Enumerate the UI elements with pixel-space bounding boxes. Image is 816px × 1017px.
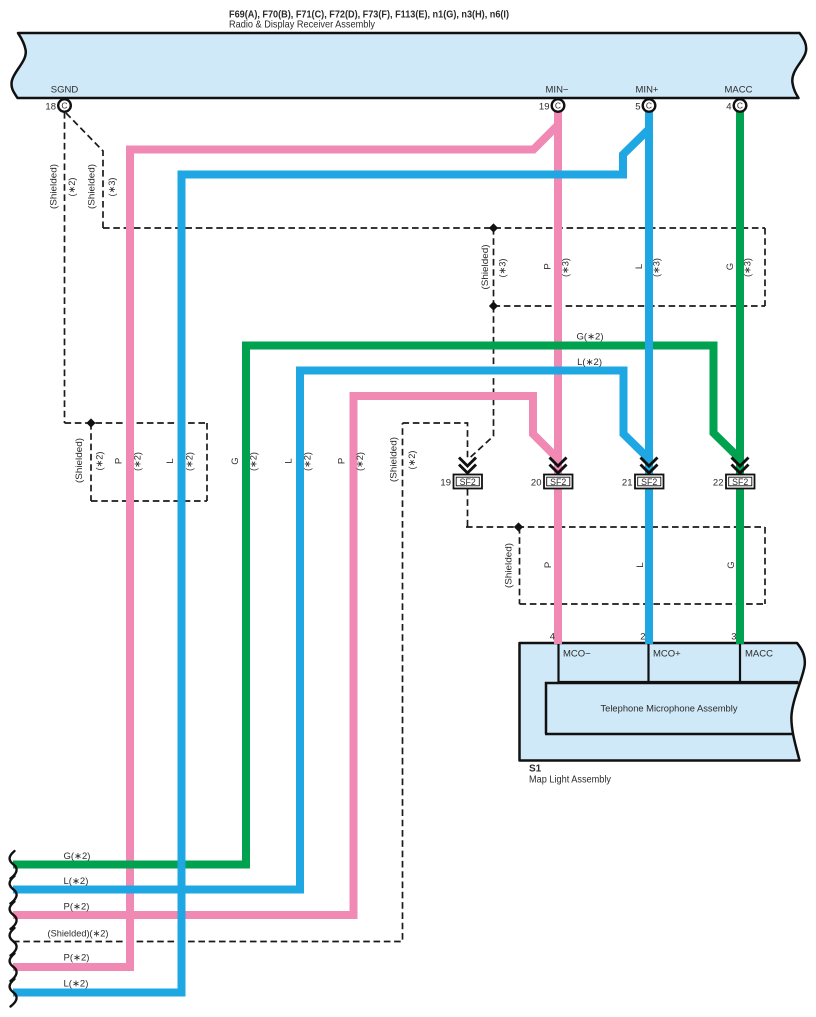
S1 pin divider MCO+	[647, 643, 649, 682]
svg-text:G(∗2): G(∗2)	[577, 332, 604, 343]
svg-text:18: 18	[45, 102, 56, 113]
bottom shield box left edge	[519, 527, 521, 604]
splice arrows SF2 21	[641, 458, 658, 474]
svg-text:(Shielded)(∗2): (Shielded)(∗2)	[48, 929, 109, 940]
svg-text:(Shielded): (Shielded)	[504, 543, 515, 588]
svg-text:C: C	[61, 101, 67, 111]
svg-text:(Shielded): (Shielded)	[389, 437, 400, 482]
splice arrows SF2 22	[732, 458, 749, 474]
svg-text:MACC: MACC	[745, 649, 773, 660]
svg-text:(∗2): (∗2)	[67, 178, 78, 197]
svg-text:L: L	[635, 562, 646, 567]
svg-text:(∗2): (∗2)	[355, 452, 366, 471]
svg-text:(∗2): (∗2)	[185, 452, 196, 471]
svg-text:(∗3): (∗3)	[652, 258, 663, 277]
svg-text:L(∗2): L(∗2)	[64, 979, 89, 990]
svg-text:(∗2): (∗2)	[407, 451, 418, 470]
dashed lead below SF2 19	[467, 489, 469, 527]
junction dot at mid shield box	[86, 418, 95, 427]
shield wire (Shielded)(*3) from pin 18, diagonal then vertical	[66, 113, 103, 228]
svg-text:(∗3): (∗3)	[561, 258, 572, 277]
mid shield box right edge	[206, 423, 208, 501]
wire L branch: diagonal, jog x=623, left run y=175, drop x=181.5, bottom stub L(*2)	[13, 130, 648, 993]
svg-text:(Shielded): (Shielded)	[87, 164, 98, 209]
svg-text:(Shielded): (Shielded)	[74, 438, 85, 483]
S1 pin divider MCO-	[557, 643, 559, 682]
shield (*3) box left edge	[493, 228, 495, 306]
svg-text:20: 20	[531, 478, 542, 489]
torn end P(*2)	[10, 902, 17, 930]
shield (*3) box bottom edge	[494, 305, 766, 307]
svg-text:Telephone Microphone Assembly: Telephone Microphone Assembly	[601, 704, 738, 715]
svg-text:21: 21	[622, 478, 633, 489]
bottom shield box bottom edge	[520, 603, 766, 605]
svg-text:(∗3): (∗3)	[107, 178, 118, 197]
svg-text:L(∗2): L(∗2)	[64, 876, 89, 887]
svg-text:Map Light Assembly: Map Light Assembly	[529, 775, 611, 786]
svg-text:Radio & Display Receiver Assem: Radio & Display Receiver Assembly	[229, 19, 376, 31]
mid shield box top edge	[65, 422, 208, 424]
svg-text:19: 19	[539, 102, 550, 113]
svg-text:(Shielded): (Shielded)	[49, 164, 60, 209]
splice box SF2 19	[454, 475, 483, 489]
svg-text:P: P	[114, 458, 125, 464]
shield wire (Shielded)(*2) riser x=402 with bottom run	[13, 423, 403, 942]
splice box SF2 21	[635, 475, 664, 489]
S1 pin divider MACC	[739, 643, 741, 682]
torn end L(*2)	[10, 876, 17, 904]
Radio & Display Receiver Assembly box	[11, 33, 806, 98]
svg-text:P(∗2): P(∗2)	[64, 953, 90, 964]
svg-text:(∗2): (∗2)	[133, 452, 144, 471]
svg-text:SF2: SF2	[732, 477, 748, 487]
svg-text:G: G	[726, 561, 737, 568]
svg-text:SF2: SF2	[550, 477, 566, 487]
svg-text:L: L	[284, 458, 295, 463]
svg-text:SGND: SGND	[51, 85, 79, 96]
shield (*3) box right edge	[764, 228, 766, 306]
svg-text:SF2: SF2	[641, 477, 657, 487]
svg-text:(∗3): (∗3)	[743, 258, 754, 277]
svg-text:C: C	[555, 101, 561, 111]
svg-text:(Shielded): (Shielded)	[480, 245, 491, 290]
mid shield box left edge	[90, 423, 92, 501]
svg-text:(∗3): (∗3)	[498, 259, 509, 278]
wire L from MIN+ pin 5, vertical to S1 pin 2	[645, 108, 653, 644]
svg-text:G(∗2): G(∗2)	[64, 851, 91, 862]
svg-text:5: 5	[635, 102, 640, 113]
svg-text:P: P	[543, 562, 554, 568]
svg-text:S1: S1	[529, 764, 542, 775]
splice box SF2 22	[726, 475, 755, 489]
svg-text:MCO−: MCO−	[563, 649, 591, 660]
torn end (Shielded)(*2)	[10, 928, 17, 956]
junction dot bottom shield box	[514, 522, 523, 531]
wire P from MIN- pin 19, vertical to S1 pin 4	[554, 108, 562, 644]
splice box SF2 20	[544, 475, 573, 489]
svg-text:MACC: MACC	[725, 85, 753, 96]
connector circle pin 4 C	[734, 99, 747, 112]
svg-text:P(∗2): P(∗2)	[64, 902, 90, 913]
svg-text:4: 4	[550, 632, 555, 643]
wire L via splice SF2 21: diagonal, riser x=623.5, run y=371, drop x=300, bottom stub L(*2)	[13, 371, 648, 890]
wire G via splice SF2 22: diagonal, riser x=713.5, run y=345, drop x=246, bottom stub G(*2)	[13, 346, 739, 865]
svg-text:(∗2): (∗2)	[95, 452, 106, 471]
svg-text:L: L	[165, 458, 176, 463]
S1 pin row bottom line	[559, 681, 799, 683]
svg-text:MIN+: MIN+	[636, 85, 659, 96]
wire P via splice SF2 20: diagonal, riser x=533, run y=396, drop x=353.5, bottom stub P(*2)	[13, 396, 557, 915]
junction dot shield (*3) box bottom	[489, 301, 498, 310]
shield (*2) link to splice SF2 19	[403, 423, 468, 459]
svg-text:G: G	[725, 263, 736, 270]
wire P branch: diagonal, left run y=150, drop x=130, bottom stub P(*2)	[13, 126, 557, 967]
svg-text:19: 19	[440, 478, 451, 489]
svg-text:C: C	[737, 101, 743, 111]
shield horizontal run y=527	[466, 526, 765, 528]
connector circle pin 18 C	[58, 99, 71, 112]
svg-text:P: P	[543, 263, 554, 269]
torn end P(*2) lower	[10, 954, 17, 982]
svg-text:L(∗2): L(∗2)	[577, 357, 602, 368]
svg-text:(∗2): (∗2)	[249, 452, 260, 471]
svg-text:MIN−: MIN−	[546, 85, 569, 96]
svg-text:SF2: SF2	[460, 477, 476, 487]
splice arrows SF2 19	[459, 458, 476, 474]
svg-text:MCO+: MCO+	[653, 649, 681, 660]
shield wire (Shielded)(*2) from pin 18, vertical drop	[64, 112, 66, 423]
mid shield box bottom edge	[91, 500, 207, 502]
svg-text:(∗2): (∗2)	[303, 452, 314, 471]
S1 Map Light Assembly outer box	[520, 643, 805, 761]
svg-text:22: 22	[713, 478, 724, 489]
torn end L(*2) lower	[10, 979, 17, 1007]
svg-text:L: L	[634, 264, 645, 269]
shield (*3) horizontal run y=228	[103, 227, 765, 229]
Telephone Microphone Assembly inner box	[546, 683, 799, 734]
bottom shield box right edge	[764, 527, 766, 604]
svg-text:2: 2	[640, 632, 645, 643]
svg-text:P: P	[337, 458, 348, 464]
svg-text:3: 3	[731, 632, 736, 643]
connector circle pin 5 C	[643, 99, 656, 112]
splice arrows SF2 20	[550, 458, 567, 474]
wire G from MACC pin 4, vertical to S1 pin 3	[736, 108, 744, 644]
svg-text:C: C	[646, 101, 652, 111]
connector circle pin 19 C	[552, 99, 565, 112]
shield (*3) drop to splice SF2 19	[469, 306, 494, 459]
torn end G(*2)	[10, 851, 17, 879]
junction dot shield (*3) box top	[489, 223, 498, 232]
svg-text:4: 4	[726, 102, 731, 113]
svg-text:G: G	[230, 457, 241, 464]
